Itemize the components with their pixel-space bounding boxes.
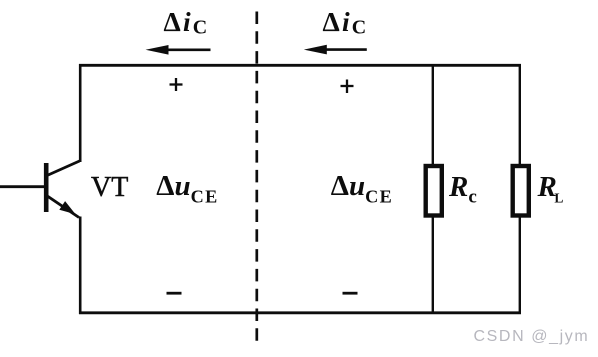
polarity plus left [170, 78, 183, 91]
wire: left vertical upper (collector branch) [79, 64, 82, 162]
wire: top rail [79, 64, 521, 67]
svg-text:ΔiC: ΔiC [164, 6, 210, 39]
wire: bottom rail [79, 311, 521, 314]
wire: RL branch lower segment [519, 215, 521, 314]
polarity minus left [167, 292, 182, 295]
svg-text:VT: VT [91, 172, 128, 203]
wire: base lead [0, 185, 45, 188]
resistor Rc [426, 166, 442, 216]
svg-text:RL: RL [537, 171, 564, 206]
dashed section boundary [255, 12, 258, 342]
svg-text:Rc: Rc [448, 171, 477, 208]
svg-text:ΔuCE: ΔuCE [156, 170, 218, 207]
svg-text:ΔuCE: ΔuCE [331, 170, 393, 207]
wire: left vertical lower (emitter branch) [79, 217, 82, 315]
polarity minus right [343, 292, 358, 295]
wire: RL branch upper segment [519, 64, 521, 166]
svg-text:CSDN @_jym: CSDN @_jym [474, 328, 590, 345]
resistor RL [513, 166, 529, 216]
wire: Rc branch upper segment [432, 64, 434, 166]
svg-text:ΔiC: ΔiC [323, 6, 369, 39]
polarity plus right [341, 80, 354, 94]
current arrow dI_C left [146, 45, 211, 55]
wire: Rc branch lower segment [432, 215, 434, 314]
current arrow dI_C right [304, 45, 367, 55]
transistor VT [46, 161, 79, 218]
